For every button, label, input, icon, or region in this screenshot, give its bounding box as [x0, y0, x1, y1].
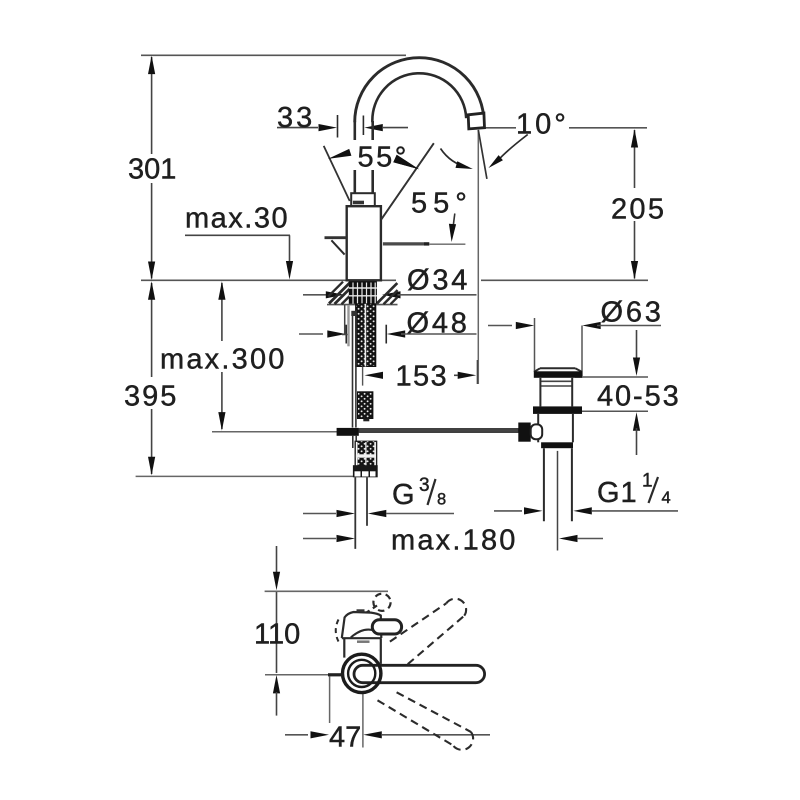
- top view pivot line: [265, 674, 328, 676]
- lever cap: [351, 193, 375, 206]
- flange hatch right: [377, 283, 397, 303]
- svg-text:G1: G1: [597, 477, 638, 509]
- spout neck left edge: [353, 121, 356, 194]
- faucet body: [347, 206, 381, 280]
- lever swing arrow right: [393, 155, 419, 170]
- top view dashed lever up: [390, 603, 446, 641]
- top view body sides: [343, 638, 345, 657]
- angle arc 10deg right leader: [497, 135, 528, 162]
- dimension line 153: [365, 372, 384, 379]
- svg-text:55°: 55°: [358, 142, 409, 174]
- dimension line dia34: [303, 294, 329, 296]
- svg-text:Ø48: Ø48: [407, 308, 470, 340]
- dimension line 110: [276, 546, 278, 573]
- top reference line: [141, 54, 406, 56]
- svg-text:max.30: max.30: [185, 203, 289, 235]
- dimension line 205: [479, 127, 516, 129]
- leader max.30: [185, 234, 290, 236]
- locknut profile: [344, 305, 346, 335]
- lever swing line right: [381, 143, 434, 219]
- svg-text:8: 8: [437, 491, 446, 509]
- drain tailpipe: [543, 448, 545, 521]
- flange hatch left: [329, 282, 351, 304]
- dimension line G3-8: [303, 513, 336, 515]
- spout neck right edge: [371, 121, 374, 194]
- spout outer arc: [355, 58, 484, 123]
- drain flange sides: [534, 368, 540, 372]
- hose nuts band: [353, 465, 378, 477]
- lever swing line left: [324, 146, 350, 201]
- svg-text:395: 395: [124, 381, 178, 413]
- svg-text:153: 153: [396, 361, 449, 393]
- svg-text:47: 47: [329, 722, 361, 754]
- svg-text:55°: 55°: [411, 188, 473, 220]
- svg-text:max.300: max.300: [160, 344, 287, 376]
- dimension line 395: [151, 283, 153, 377]
- svg-text:205: 205: [611, 194, 666, 226]
- dimension line max.300: [221, 283, 223, 341]
- thread patch lower: [358, 392, 373, 419]
- lever cap mark: [353, 201, 364, 205]
- drain lower ring: [541, 442, 573, 448]
- dimension line 40-53: [575, 376, 648, 378]
- horizontal pop-up rod: [359, 429, 519, 433]
- svg-text:G: G: [392, 479, 415, 511]
- top view dome inner arc: [351, 630, 381, 638]
- dimension line G1-4: [494, 510, 522, 512]
- dimension line max.180: [303, 538, 336, 540]
- counter deck top line: [141, 279, 396, 281]
- svg-text:Ø63: Ø63: [601, 297, 664, 329]
- spout 10deg tilted line: [478, 130, 487, 179]
- pull rod upper: [351, 311, 357, 316]
- supply studs: [355, 441, 376, 469]
- svg-text:110: 110: [254, 619, 300, 651]
- spout tip aerator: [468, 113, 484, 129]
- lever bar right: [383, 242, 424, 245]
- drain seal ring: [533, 406, 582, 414]
- rod clamp: [337, 428, 359, 436]
- lever swing line right overdraw: [381, 143, 434, 219]
- svg-text:10°: 10°: [516, 109, 569, 141]
- spout inner arc: [372, 73, 466, 122]
- drain under-flange lines: [540, 380, 572, 382]
- top view cartridge outer circle: [343, 654, 381, 692]
- dimension label 55 deg left: [353, 140, 393, 170]
- drain flange top: [540, 367, 575, 369]
- spout axis vertical line: [477, 130, 479, 384]
- hose left: [354, 477, 356, 549]
- drain body walls: [537, 414, 539, 442]
- svg-text:max.180: max.180: [391, 525, 518, 557]
- dimension line 47: [285, 734, 308, 736]
- lever swing arrow right overdraw: [393, 155, 419, 170]
- left tab lever closed: [325, 236, 347, 239]
- top view dashed lever down: [397, 692, 471, 732]
- top view cartridge inner circle: [348, 660, 375, 687]
- flange thread block: [349, 281, 377, 304]
- top view left dashed arc: [336, 620, 339, 642]
- drain rod socket: [531, 424, 543, 439]
- top view spout capsule: [372, 620, 401, 634]
- svg-text:3: 3: [419, 475, 430, 496]
- svg-text:4: 4: [662, 489, 671, 507]
- drain flange rim: [534, 371, 582, 378]
- svg-text:Ø34: Ø34: [407, 265, 470, 297]
- lever swing arrow left: [328, 149, 352, 159]
- svg-text:40-53: 40-53: [597, 381, 681, 413]
- top view lever capsule: [354, 665, 485, 682]
- drain center line: [557, 451, 559, 551]
- dimension line dia63: [488, 325, 512, 327]
- dimension line 301: [151, 57, 153, 154]
- hose right: [366, 477, 368, 526]
- svg-text:33: 33: [277, 102, 315, 134]
- svg-text:1: 1: [642, 471, 653, 492]
- threaded shank: [356, 304, 376, 367]
- drain neck walls: [539, 378, 541, 407]
- top view dashed diagonal: [361, 606, 378, 617]
- dimension line dia48: [299, 333, 323, 335]
- top view dome: [342, 612, 382, 638]
- top view dashed tip circle: [373, 594, 390, 611]
- svg-text:301: 301: [128, 154, 176, 186]
- angle 55 right leader: [452, 214, 455, 235]
- counter deck bottom line: [327, 304, 398, 306]
- dimension line 33: [277, 127, 318, 129]
- angle arc 10deg left: [441, 149, 469, 168]
- drain rod knob: [518, 423, 530, 442]
- centerline below shank: [362, 367, 364, 386]
